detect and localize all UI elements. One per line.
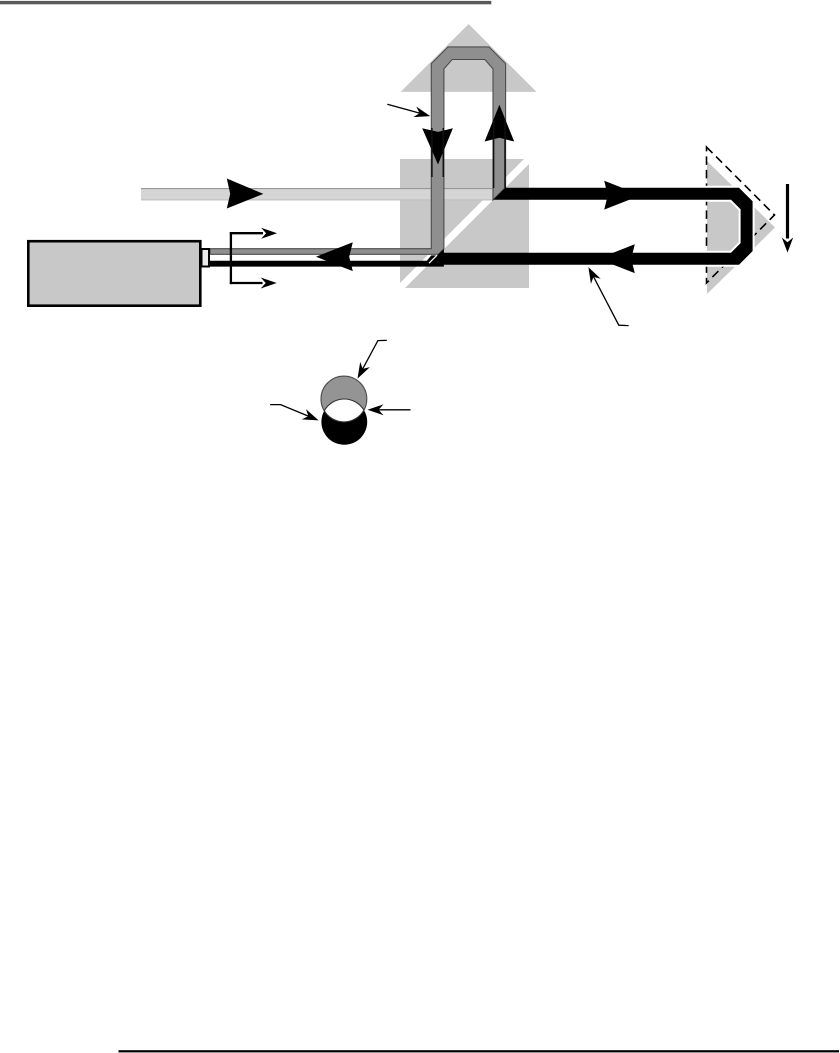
page bottom rule (119, 1050, 840, 1052)
retroreflector motion arrow (786, 184, 789, 239)
reference beam path (gray U loop with return to laser) (210, 47, 506, 254)
white slash at splitter junction (429, 255, 437, 263)
leg edge lines over arrows (431, 128, 433, 177)
arrow on outgoing beam (227, 179, 264, 209)
outgoing dual-frequency beam (141, 188, 494, 200)
up arrow on reference beam right leg (485, 105, 515, 142)
right arrow on measurement beam (604, 181, 641, 210)
beam splitter cube (400, 159, 529, 288)
annotation arrow to black circle (270, 405, 321, 426)
return beam f2 (thin black to laser) (210, 261, 428, 267)
down arrow on reference beam left leg (422, 128, 453, 164)
measurement retroreflector moved position (dashed) (707, 147, 775, 283)
bracket bottom arrowhead (261, 278, 277, 289)
junction wedge at splitter diagonal (422, 249, 444, 267)
laser aperture (202, 249, 210, 267)
annotation arrow to overlap (368, 404, 411, 415)
bracket for two frequency components (230, 232, 263, 284)
beam cross-section: f1 circle (gray) (321, 376, 367, 422)
annotation arrow to measurement return beam (584, 265, 629, 326)
beam splitter diagonal interface (400, 159, 529, 288)
annotation arrow to reference beam (387, 104, 431, 121)
bracket top arrowhead (261, 228, 277, 239)
reference retroreflector (top prism) (401, 24, 537, 92)
left arrow on measurement return beam (598, 244, 635, 273)
laser head (28, 241, 200, 306)
beam cross-section: f2 circle (black) (321, 399, 367, 445)
left arrow on return beams near laser (316, 242, 353, 271)
measurement beam path (black, out and back via moving retroreflector) (428, 188, 753, 265)
page top rule (0, 1, 491, 4)
overlap lens (white) (324, 399, 364, 422)
white casing around measurement bend (700, 186, 755, 267)
annotation arrow to gray circle (353, 340, 387, 381)
measurement retroreflector (solid) (707, 161, 775, 294)
